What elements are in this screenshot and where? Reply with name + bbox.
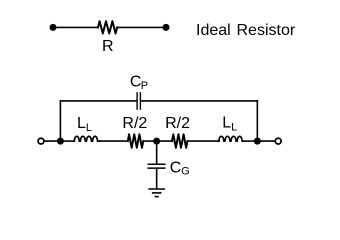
wire junction B down to CG (156, 141, 158, 164)
svg-text:R: R (102, 38, 114, 55)
svg-text:R/2: R/2 (165, 115, 190, 132)
wire junction B to R/2 right (157, 140, 172, 142)
svg-text:C: C (130, 73, 142, 90)
capacitor CG (148, 164, 165, 168)
wire R/2 right to inductor right (187, 140, 218, 142)
port right open circle (275, 138, 281, 144)
wire left riser (59, 101, 61, 141)
svg-text:L: L (231, 122, 237, 134)
inductor LL left (74, 136, 98, 141)
svg-text:C: C (170, 159, 182, 176)
node junction B (middle) (153, 138, 160, 145)
svg-text:Ideal: Ideal (196, 22, 231, 39)
node junction A (left) (57, 138, 64, 145)
svg-text:L: L (222, 115, 231, 132)
wire top rail right of CP (141, 100, 257, 102)
wire top-right lead (117, 26, 166, 28)
svg-text:L: L (77, 115, 86, 132)
wire junction C to right port (257, 140, 275, 142)
svg-text:G: G (181, 165, 190, 177)
svg-text:L: L (86, 122, 92, 134)
resistor R (98, 21, 117, 33)
capacitor CP (137, 93, 140, 109)
wire junction A to inductor (60, 140, 74, 142)
wire top rail left of CP (60, 100, 136, 102)
wire left port to junction (44, 140, 60, 142)
resistor R/2 right (172, 134, 187, 148)
svg-text:R/2: R/2 (122, 115, 147, 132)
node junction C (right) (254, 138, 261, 145)
wire inductor to R/2 (99, 140, 128, 142)
wire CG to ground (156, 169, 158, 188)
svg-text:P: P (141, 80, 148, 92)
node left terminal dot (top figure) (50, 24, 57, 31)
wire top-left lead (53, 26, 98, 28)
svg-text:Resistor: Resistor (237, 22, 296, 39)
wire inductor right to junction C (243, 140, 257, 142)
port left open circle (38, 138, 44, 144)
wire R/2 to junction B (143, 140, 156, 142)
ground (149, 189, 164, 197)
inductor LL right (219, 136, 243, 141)
resistor R/2 left (128, 134, 143, 148)
wire right riser (256, 101, 258, 141)
node right terminal dot (top figure) (163, 24, 170, 31)
